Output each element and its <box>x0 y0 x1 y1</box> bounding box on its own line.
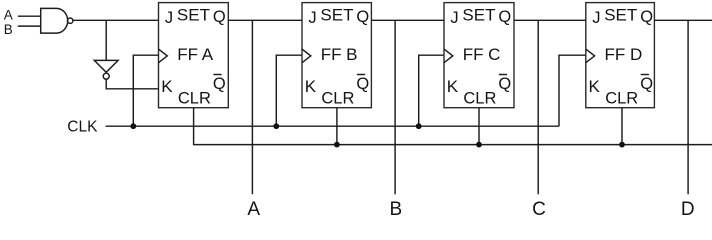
svg-text:CLK: CLK <box>67 119 98 136</box>
svg-text:SET: SET <box>320 5 353 24</box>
wire Q of FF D to right edge <box>654 19 712 21</box>
wire output B drop <box>394 20 396 194</box>
FF A pin label Q-bar <box>213 75 226 93</box>
svg-text:SET: SET <box>604 5 637 24</box>
wire CLR of FF C to CLR bus <box>478 108 480 145</box>
wire input B to NAND pin 2 <box>18 25 41 27</box>
svg-text:A: A <box>247 199 260 216</box>
NAND gate G1 output bubble <box>68 18 73 23</box>
wire CLR of FF D to CLR bus <box>621 108 623 145</box>
svg-text:D: D <box>681 199 695 216</box>
svg-text:J: J <box>450 9 458 27</box>
svg-text:Q: Q <box>498 8 511 26</box>
svg-text:A: A <box>4 8 13 23</box>
wire CLR of FF B to CLR bus <box>336 108 338 145</box>
svg-text:K: K <box>589 77 601 96</box>
FF C clock chevron <box>444 49 453 63</box>
svg-text:B: B <box>4 22 13 37</box>
wire CLK bus <box>106 125 559 127</box>
FF B clock chevron <box>302 49 311 63</box>
svg-text:J: J <box>308 9 316 27</box>
svg-text:Q: Q <box>640 8 653 26</box>
svg-text:Q: Q <box>356 8 369 26</box>
svg-text:CLR: CLR <box>463 89 496 107</box>
svg-text:Q: Q <box>640 75 653 93</box>
wire output C drop <box>537 20 539 194</box>
svg-text:C: C <box>532 199 546 216</box>
FF A clock chevron <box>159 49 168 63</box>
wire clock to FF C <box>419 55 444 126</box>
wire Q of FF C to J of FF D <box>514 19 586 21</box>
junction on CLK bus for FF B <box>273 123 279 129</box>
svg-text:J: J <box>165 9 173 27</box>
inverter G2 <box>94 60 118 72</box>
svg-text:FF B: FF B <box>321 45 358 64</box>
svg-text:Q: Q <box>213 75 226 93</box>
junction on CLR bus for FF D <box>619 142 625 148</box>
svg-text:CLR: CLR <box>178 89 211 107</box>
NAND gate G1 <box>41 8 68 33</box>
svg-text:K: K <box>305 77 317 96</box>
wire clock to FF A <box>133 55 158 126</box>
inverter G2 output bubble <box>103 73 109 79</box>
svg-text:SET: SET <box>177 5 210 24</box>
svg-text:J: J <box>592 9 600 27</box>
wire inverter output to K of FF A <box>106 79 158 89</box>
junction on CLK bus for FF C <box>416 123 422 129</box>
junction on CLR bus for FF C <box>476 142 482 148</box>
junction on CLR bus for FF B <box>334 142 340 148</box>
svg-text:SET: SET <box>462 5 495 24</box>
svg-text:Q: Q <box>356 75 369 93</box>
flip-flop FF A (box U1) <box>159 3 229 108</box>
svg-text:FF C: FF C <box>463 45 501 64</box>
flip-flop FF B (box U2) <box>302 3 371 108</box>
wire input A to NAND pin 1 <box>18 15 41 17</box>
wire branch down to inverter G2 <box>105 20 107 60</box>
svg-text:CLR: CLR <box>605 89 638 107</box>
svg-text:CLR: CLR <box>321 89 354 107</box>
FF D pin label Q-bar <box>640 75 653 93</box>
junction on CLK bus for FF A <box>130 123 136 129</box>
FF D clock chevron <box>586 49 595 63</box>
flip-flop FF D (box U4) <box>586 3 655 108</box>
wire NAND output to J of FF A <box>73 19 159 21</box>
FF B pin label Q-bar <box>356 75 369 93</box>
wire Q of FF B to J of FF C <box>371 19 444 21</box>
svg-text:Q: Q <box>213 8 226 26</box>
wire output D drop <box>687 20 689 194</box>
svg-text:FF D: FF D <box>605 45 643 64</box>
wire clock to FF D <box>559 55 586 126</box>
wire CLR bus <box>194 108 712 145</box>
FF C pin label Q-bar <box>498 75 511 93</box>
flip-flop FF C (box U3) <box>444 3 514 108</box>
wire output A drop <box>251 20 253 194</box>
svg-text:FF A: FF A <box>177 45 214 64</box>
svg-text:B: B <box>390 199 403 216</box>
svg-text:K: K <box>161 77 173 96</box>
wire Q of FF A to J of FF B <box>228 19 302 21</box>
svg-text:K: K <box>447 77 459 96</box>
wire clock to FF B <box>276 55 302 126</box>
svg-text:Q: Q <box>498 75 511 93</box>
